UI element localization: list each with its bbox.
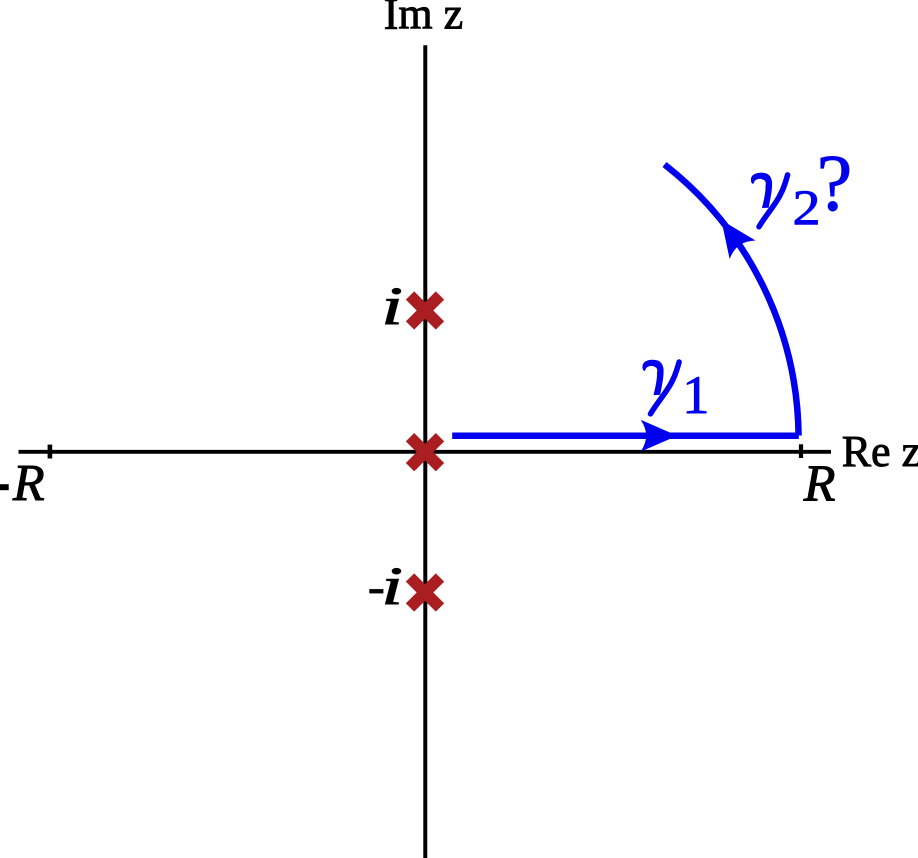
pole at -i (red cross) bbox=[410, 578, 440, 608]
svg-text:i: i bbox=[381, 556, 403, 616]
svg-text:R: R bbox=[12, 455, 45, 512]
axis Im (vertical) bbox=[423, 45, 427, 858]
svg-text:1: 1 bbox=[682, 365, 709, 425]
tick R bbox=[799, 444, 803, 458]
svg-text:i: i bbox=[381, 276, 403, 336]
svg-text:?: ? bbox=[817, 140, 853, 228]
contour gamma2 (arc of radius R) bbox=[665, 165, 799, 436]
arrowhead gamma1 bbox=[641, 420, 678, 452]
arrowhead gamma2 bbox=[708, 211, 755, 259]
svg-text:Re z: Re z bbox=[842, 427, 918, 476]
label gamma2: gamma bbox=[751, 173, 787, 227]
svg-text:R: R bbox=[803, 455, 836, 512]
svg-text:Im z: Im z bbox=[384, 0, 463, 39]
label -i: hyphen bbox=[369, 589, 383, 593]
contour gamma1 (segment on real axis) bbox=[452, 433, 799, 440]
label gamma1: gamma bbox=[643, 360, 679, 414]
tick -R bbox=[48, 445, 53, 459]
pole at i (red cross) bbox=[410, 296, 440, 326]
axis Re (horizontal) bbox=[19, 450, 832, 454]
pole at 0 (red cross) bbox=[410, 437, 440, 467]
label -R: hyphen bbox=[0, 484, 9, 490]
